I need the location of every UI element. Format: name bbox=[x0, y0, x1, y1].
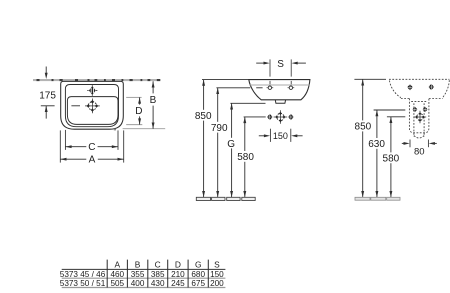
table column separators bbox=[107, 260, 208, 288]
dimension C bbox=[65, 142, 118, 153]
right wall-plug symbol (side) bbox=[423, 107, 428, 113]
dimension B bottom extension line bbox=[123, 128, 166, 130]
dimension 630 top reference line bbox=[374, 109, 406, 111]
drain centre dash bbox=[71, 105, 80, 107]
hidden basin bottom edge left (side) bbox=[401, 98, 410, 100]
svg-text:S: S bbox=[214, 260, 220, 270]
hidden basin left edge (side) bbox=[390, 81, 401, 98]
svg-text:630: 630 bbox=[368, 139, 385, 150]
svg-text:B: B bbox=[135, 260, 141, 270]
hidden shroud top arc (side) bbox=[411, 101, 427, 103]
floor hatch pads (side view) bbox=[355, 197, 400, 200]
basin outer outline (plan) bbox=[61, 81, 124, 129]
table bottom line bbox=[62, 287, 226, 289]
svg-text:400: 400 bbox=[131, 279, 145, 288]
dimension 850 (side) top reference line bbox=[354, 78, 386, 80]
svg-text:505: 505 bbox=[110, 279, 124, 288]
rim shadow line (front) bbox=[249, 84, 309, 86]
right wall-plug symbol (front) bbox=[288, 114, 294, 120]
dimension A bbox=[60, 155, 123, 166]
dimension 580 (front) bbox=[237, 117, 254, 197]
dimension 630 bbox=[368, 110, 385, 197]
svg-text:C: C bbox=[88, 142, 95, 153]
hidden basin bottom edge right (side) bbox=[429, 98, 443, 100]
dimension 175 lower arrow bbox=[45, 106, 48, 119]
overflow mark bbox=[114, 129, 116, 131]
left wall-plug symbol (front) bbox=[267, 114, 273, 120]
svg-text:150: 150 bbox=[273, 131, 288, 141]
svg-text:210: 210 bbox=[171, 270, 185, 279]
table header underline bbox=[62, 268, 226, 270]
svg-text:B: B bbox=[150, 95, 157, 106]
drain crosshair below basin (front) bbox=[274, 110, 288, 124]
table middle separator bbox=[62, 277, 226, 279]
hidden basin right edge (side) bbox=[443, 80, 450, 97]
table row 5373 45/46 bbox=[60, 270, 224, 279]
floor hatch pads (front view) bbox=[196, 197, 255, 200]
svg-text:850: 850 bbox=[195, 111, 212, 122]
drain crosshair (side) bbox=[414, 111, 426, 123]
drain centre extension line bbox=[41, 105, 55, 107]
right fixing hole (side) bbox=[429, 84, 435, 90]
svg-text:580: 580 bbox=[383, 153, 400, 164]
hidden basin top edge (side) bbox=[389, 78, 449, 80]
left wall-plug symbol (side) bbox=[412, 107, 417, 113]
dimension 850 (front) bbox=[195, 80, 212, 198]
svg-text:460: 460 bbox=[110, 270, 124, 279]
svg-text:675: 675 bbox=[191, 279, 205, 288]
wall hatch band (plan view) bbox=[33, 79, 161, 81]
svg-text:D: D bbox=[175, 260, 181, 270]
table row 5373 50/51 bbox=[60, 279, 224, 288]
hidden drain pipe (side) bbox=[414, 103, 424, 138]
drain stub (front) bbox=[275, 100, 285, 103]
svg-text:580: 580 bbox=[237, 152, 254, 163]
dimension S extension lines bbox=[270, 59, 291, 84]
dimension D extension lines bbox=[126, 97, 142, 124]
svg-text:A: A bbox=[115, 260, 121, 270]
dimension 150 bbox=[259, 131, 303, 141]
svg-text:D: D bbox=[135, 106, 142, 117]
svg-text:S: S bbox=[277, 59, 284, 70]
dimension D bbox=[135, 97, 142, 124]
svg-text:850: 850 bbox=[355, 122, 372, 133]
svg-text:5373 45 / 46: 5373 45 / 46 bbox=[60, 270, 106, 279]
svg-text:A: A bbox=[89, 155, 96, 166]
dimension 850 (front) top reference line bbox=[202, 79, 249, 81]
right fixing hole (front) bbox=[288, 86, 295, 89]
dimension 80 bbox=[402, 142, 437, 157]
left fixing hole (front) bbox=[267, 86, 274, 89]
dimension 80 extension ticks bbox=[410, 140, 428, 148]
table header letters A B C D G S bbox=[115, 260, 221, 270]
left fixing hole (side) bbox=[407, 84, 413, 90]
tap hole symbol bbox=[87, 85, 97, 96]
drain symbol (plan) bbox=[85, 99, 100, 114]
svg-text:355: 355 bbox=[131, 270, 145, 279]
basin rim outline (plan) bbox=[65, 85, 118, 127]
svg-text:200: 200 bbox=[210, 279, 224, 288]
svg-text:680: 680 bbox=[191, 270, 205, 279]
svg-text:5373 50 / 51: 5373 50 / 51 bbox=[60, 279, 106, 288]
svg-text:150: 150 bbox=[210, 270, 224, 279]
dimension 850 (side) bbox=[355, 79, 372, 197]
hidden pedestal shroud (side) bbox=[409, 99, 429, 133]
dimension G top reference line bbox=[230, 102, 265, 104]
svg-text:80: 80 bbox=[414, 146, 425, 157]
svg-text:245: 245 bbox=[171, 279, 185, 288]
svg-text:C: C bbox=[155, 260, 161, 270]
dimension 580 (side) top reference line bbox=[387, 116, 405, 118]
bowl outline (plan) bbox=[67, 97, 118, 125]
dimension 175 upper arrow bbox=[45, 67, 48, 80]
washbasin front elevation bbox=[249, 80, 310, 100]
dimension G bbox=[227, 103, 235, 197]
svg-text:175: 175 bbox=[39, 91, 56, 102]
dimension 580 (side) bbox=[383, 117, 400, 197]
svg-text:790: 790 bbox=[211, 123, 228, 134]
dimension 790 bbox=[211, 88, 228, 197]
dimension 790 top reference line bbox=[216, 87, 262, 89]
svg-text:430: 430 bbox=[151, 279, 165, 288]
dimension B bbox=[150, 81, 157, 128]
dimension A extension lines bbox=[60, 130, 123, 162]
dimension 150 extension ticks bbox=[270, 129, 290, 142]
svg-text:G: G bbox=[195, 260, 202, 270]
dimension C extension lines bbox=[65, 130, 118, 150]
dimension 580 (front) top reference line bbox=[244, 116, 266, 118]
label 175 bbox=[39, 91, 56, 102]
svg-text:385: 385 bbox=[151, 270, 165, 279]
svg-text:G: G bbox=[227, 139, 235, 150]
dimension S bbox=[256, 59, 306, 70]
